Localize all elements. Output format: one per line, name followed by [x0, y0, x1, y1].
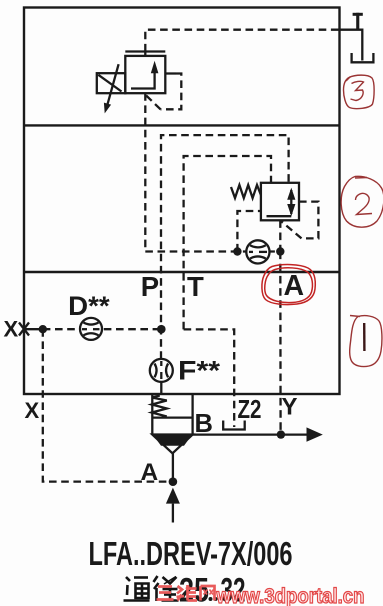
- T pipe outside block: [340, 30, 363, 61]
- orifice D: [80, 318, 102, 340]
- cartridge valve box: [152, 394, 192, 434]
- valve V3 feedback loop dashed: [144, 74, 182, 110]
- valve V2 sensing line dashed: [237, 211, 261, 252]
- junction node X: [39, 325, 47, 333]
- valve V3 internal flow arrow: [131, 61, 158, 89]
- red annotation circled 1: [350, 316, 382, 367]
- svg-text:Y: Y: [282, 394, 298, 421]
- orifice O2: [246, 240, 269, 263]
- pilot hook T to valve V2 dashed: [184, 156, 271, 329]
- valve V3 vent line dashed to T: [145, 30, 339, 52]
- svg-text:F**: F**: [178, 356, 221, 386]
- valve V3 solenoid cross diagonal: [98, 75, 121, 92]
- valve V2 feedback loop dashed: [281, 202, 319, 239]
- valve V3 body square: [125, 56, 165, 93]
- svg-text:X: X: [4, 317, 19, 342]
- svg-text:X: X: [25, 398, 40, 423]
- pilot line X down dashed: [43, 329, 168, 481]
- red annotation circled 2: [341, 176, 383, 227]
- valve V2 spring: [231, 185, 261, 198]
- valve V3 pilot line down: [144, 93, 146, 251]
- svg-text:www.3dportal.cn: www.3dportal.cn: [216, 584, 365, 606]
- port X mark on border: [19, 323, 29, 336]
- cartridge valve poppet: [152, 435, 192, 454]
- Z2 port cup: [223, 421, 245, 430]
- section divider line 2: [24, 271, 340, 273]
- svg-text:A: A: [141, 459, 159, 486]
- junction node P-line: [157, 325, 166, 334]
- section divider line 1: [24, 124, 340, 126]
- pilot line A-Y dashed: [279, 252, 282, 435]
- wire F to block edge: [160, 382, 162, 395]
- svg-text:A: A: [284, 270, 305, 302]
- port A line: [172, 453, 174, 478]
- junction node A: [169, 477, 178, 486]
- svg-text:D**: D**: [68, 291, 110, 321]
- pilot line orifice row dashed: [145, 250, 280, 252]
- valve V3 right port stub: [165, 72, 176, 74]
- orifice F: [150, 359, 173, 382]
- svg-text:Z2: Z2: [238, 396, 262, 424]
- valve V3 top pilot stub: [144, 52, 146, 56]
- junction node left of orifice O2: [233, 247, 241, 255]
- valve V3 solenoid rect: [97, 73, 126, 93]
- valve V2 body square: [261, 183, 299, 221]
- pilot line T to Z2 dashed: [184, 329, 235, 427]
- tank symbol: [352, 53, 374, 62]
- port B flow arrow: [307, 427, 323, 441]
- valve V3 cap line: [125, 50, 165, 52]
- valve V2 internal path: [267, 188, 296, 217]
- svg-text:P: P: [141, 271, 159, 302]
- wire X to node: [24, 328, 43, 330]
- valve V3 adjustment arrow: [104, 64, 119, 113]
- red annotation circled 3: [344, 75, 375, 108]
- label T top: [353, 13, 363, 30]
- svg-text:B: B: [195, 410, 213, 438]
- junction node Y: [277, 430, 285, 438]
- hanzi jing (diameter): [154, 576, 179, 601]
- port B line: [193, 433, 308, 435]
- pilot hook P to valve V2 dashed: [161, 135, 289, 359]
- hanzi tong (bore): [124, 577, 150, 601]
- port A flow arrow: [166, 488, 180, 523]
- valve V2 bottom pilot stub dashed: [279, 220, 281, 251]
- pilot line X to P dashed: [43, 328, 162, 330]
- red annotation circled A: [262, 265, 315, 305]
- svg-text:LFA..DREV-7X/006: LFA..DREV-7X/006: [89, 535, 293, 572]
- red watermark: [157, 584, 365, 606]
- manifold block outer border: [24, 8, 340, 395]
- watermark hanzi san wei wang: [157, 585, 215, 601]
- svg-text:T: T: [187, 271, 204, 302]
- junction node right of orifice O2: [276, 247, 284, 255]
- cartridge valve spring: [152, 396, 167, 417]
